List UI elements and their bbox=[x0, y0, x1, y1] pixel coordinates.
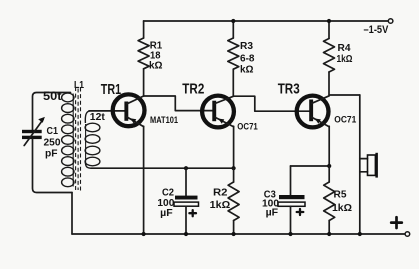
svg-text:TR3: TR3 bbox=[278, 81, 300, 98]
junction: TR3 emitter / R5 bbox=[327, 164, 331, 168]
svg-text:kΩ: kΩ bbox=[240, 63, 254, 75]
junction: C3 / rail bbox=[288, 232, 292, 236]
svg-text:TR1: TR1 bbox=[101, 81, 121, 98]
junction: R2 / rail bbox=[232, 232, 236, 236]
svg-text:OC71: OC71 bbox=[334, 115, 356, 125]
wire: secondary top lead bbox=[85, 111, 90, 123]
wire: TR3 emitter node bus bbox=[291, 165, 330, 167]
label: C2 100uF bbox=[157, 187, 174, 220]
wire: TR1 emitter down to rail bbox=[143, 126, 145, 234]
wire: secondary bottom lead bbox=[85, 162, 91, 169]
polarity mark: C2 + bbox=[189, 210, 196, 216]
capacitor C2 bbox=[174, 168, 199, 234]
label: C1 value bbox=[44, 125, 61, 160]
capacitor C1 (variable) bbox=[22, 117, 45, 146]
wire: TR1 collector to TR2 base bbox=[144, 96, 213, 111]
wire: C1/L1 tank top bbox=[33, 93, 71, 131]
svg-text:pF: pF bbox=[45, 148, 58, 160]
wire: tank bottom drop to rail bbox=[71, 193, 73, 235]
junction: C2 / rail bbox=[184, 232, 188, 236]
label: R4 1kOhm bbox=[337, 42, 353, 65]
resistor R3 bbox=[232, 21, 234, 38]
polarity mark: + battery bbox=[391, 217, 402, 228]
wire: TR3 collector to speaker bbox=[329, 94, 360, 96]
svg-text:12t: 12t bbox=[90, 111, 105, 123]
terminal: -1.5V supply bbox=[388, 19, 393, 24]
label: R2 1kOhm bbox=[210, 187, 231, 212]
resistor R5 bbox=[328, 166, 330, 182]
transistor TR1 bbox=[113, 94, 145, 126]
junction: C2 tap bbox=[184, 166, 188, 170]
inductor L1 primary 50t bbox=[62, 93, 74, 187]
svg-text:R5: R5 bbox=[334, 189, 347, 201]
transistor TR2 bbox=[202, 96, 234, 128]
label: R3 6-8 kOhm bbox=[240, 40, 255, 75]
svg-text:TR2: TR2 bbox=[182, 81, 204, 98]
svg-text:1kΩ: 1kΩ bbox=[337, 53, 353, 65]
svg-text:50t: 50t bbox=[43, 89, 62, 103]
polarity mark: C3 + bbox=[297, 209, 304, 215]
junction: TR2 emitter / R2 bbox=[232, 166, 236, 170]
junction: TR1 emitter / rail bbox=[142, 232, 146, 236]
wire: TR2 collector to TR3 base bbox=[234, 96, 310, 111]
junction: R5 / rail bbox=[327, 232, 331, 236]
wire: TR1 base from L1 secondary bbox=[89, 110, 126, 112]
svg-text:1kΩ: 1kΩ bbox=[332, 202, 352, 214]
svg-text:MAT101: MAT101 bbox=[150, 115, 178, 125]
junction: speaker / rail bbox=[358, 232, 362, 236]
capacitor C3 bbox=[278, 166, 305, 234]
svg-text:OC71: OC71 bbox=[237, 122, 257, 132]
junction: R4 / top rail bbox=[327, 19, 331, 23]
transistor TR3 bbox=[297, 96, 330, 128]
svg-text:kΩ: kΩ bbox=[149, 60, 163, 72]
junction: R3 / top rail bbox=[231, 19, 235, 23]
resistor R2 bbox=[233, 168, 235, 182]
wire: TR3 emitter down to node bbox=[328, 126, 330, 166]
resistor R1 bbox=[143, 21, 145, 38]
svg-text:C1: C1 bbox=[47, 125, 59, 137]
svg-text:µF: µF bbox=[266, 206, 279, 218]
svg-text:1kΩ: 1kΩ bbox=[210, 199, 231, 211]
wire: speaker feed bbox=[359, 95, 361, 234]
label: C3 100uF bbox=[262, 188, 279, 218]
svg-text:R4: R4 bbox=[338, 42, 351, 54]
wire: tank left lower + bottom bbox=[33, 139, 73, 193]
label: R5 1kOhm bbox=[332, 189, 352, 215]
terminal: + battery bbox=[405, 232, 410, 237]
svg-text:–1-5V: –1-5V bbox=[364, 24, 389, 36]
core of L1 (dashed) bbox=[76, 87, 81, 191]
wire: emitter node bus (L1 sec bottom to R2) bbox=[91, 167, 234, 169]
svg-text:R3: R3 bbox=[240, 40, 253, 52]
wire: TR2 emitter down to node bbox=[233, 126, 235, 168]
resistor R4 bbox=[328, 21, 330, 39]
wire: bottom rail bbox=[72, 233, 405, 235]
svg-text:R2: R2 bbox=[213, 187, 228, 199]
label: R1 18 kOhm bbox=[149, 40, 163, 72]
speaker LS1 (earpiece) bbox=[360, 153, 378, 178]
wire: top supply rail bbox=[144, 20, 389, 22]
svg-text:µF: µF bbox=[160, 207, 173, 219]
inductor L1 secondary 12t bbox=[85, 123, 100, 166]
